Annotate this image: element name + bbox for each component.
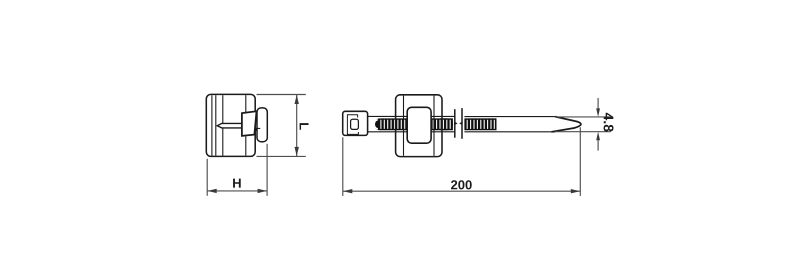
break line left bbox=[454, 109, 456, 138]
dimension 4.8: lower leader with arrow bbox=[597, 140, 599, 151]
serrated band left (rounded left end) bbox=[374, 118, 453, 130]
clip body (top view) bbox=[396, 95, 442, 157]
dimension L: bottom extension line bbox=[257, 155, 306, 157]
dimension L: top extension line bbox=[257, 94, 306, 96]
strap left segment bottom edge bbox=[367, 131, 455, 133]
dimension H: right extension line bbox=[266, 144, 268, 196]
clip inner wall line right (interrupted by tie head) bbox=[245, 95, 247, 112]
side tab (clip plate behind head) bbox=[257, 108, 267, 142]
dimension 4.8: top extension line bbox=[555, 116, 611, 118]
clip inner wall line 1b bbox=[215, 95, 217, 155]
tie head block (tilted) bbox=[242, 111, 257, 136]
dimension H: left extension line bbox=[206, 159, 208, 196]
hook detail inside head bbox=[256, 128, 260, 131]
dimension 200: right extension line bbox=[579, 127, 581, 196]
dimension 200: dimension line bbox=[343, 190, 581, 192]
dimension H: label bbox=[233, 179, 241, 188]
strap arm (tie strap edge-on, pointed tip) bbox=[217, 123, 242, 128]
dimension 4.8: upper leader with arrow bbox=[597, 98, 599, 109]
clip centre pad bbox=[407, 107, 431, 143]
tie head outline bbox=[343, 111, 368, 135]
dimension 4.8: label bbox=[604, 113, 614, 132]
dimension 200: left extension line bbox=[342, 137, 344, 196]
head aperture bracket bbox=[347, 115, 358, 135]
strap pointed tip bbox=[552, 117, 581, 132]
dimension L: dimension line bbox=[296, 95, 298, 156]
clip body outline bbox=[206, 94, 255, 156]
dimension H: dimension line bbox=[207, 190, 267, 192]
strap right segment bottom edge bbox=[464, 131, 555, 133]
clip inner wall right bbox=[433, 96, 435, 156]
head pawl square bbox=[351, 119, 359, 129]
clip inner wall left bbox=[403, 96, 405, 156]
clip inner wall line 1 bbox=[211, 95, 213, 155]
clip inner wall line 2 (interrupted by arm) bbox=[222, 95, 224, 123]
break line right bbox=[461, 108, 463, 139]
dimension 200: label bbox=[451, 180, 472, 189]
dimension 4.8: bottom extension line bbox=[555, 131, 611, 133]
strap left segment top edge bbox=[367, 115, 455, 117]
serrated band right bbox=[464, 118, 496, 130]
dimension L: label bbox=[300, 123, 309, 130]
strap right segment top edge bbox=[464, 116, 555, 118]
